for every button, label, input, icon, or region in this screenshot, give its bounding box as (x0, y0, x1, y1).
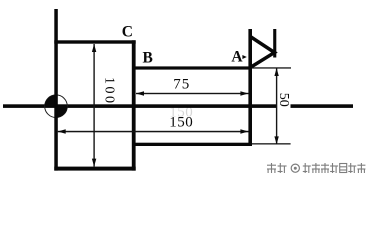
svg-text:C: C (122, 23, 133, 40)
dimension 150: left arrow (58, 129, 66, 133)
svg-text:B: B (143, 49, 153, 66)
dimension 150: right arrow (240, 129, 248, 133)
shaft bottom edge (133, 143, 252, 146)
flange bottom edge (54, 167, 135, 171)
dimension 100: bottom arrow (92, 159, 96, 167)
svg-text:A: A (231, 49, 243, 66)
flange left edge / end face line (54, 9, 58, 171)
cutting tool chevron tip (251, 37, 275, 67)
dimension 50: bottom extension line (252, 143, 291, 144)
datum circle (center-of-mass symbol) (45, 95, 68, 118)
svg-text:75: 75 (173, 77, 190, 93)
dimension 100: dimension line (93, 44, 94, 167)
dimension 50: white gap behind text (278, 92, 291, 109)
watermark: gray publisher text (CJK glyphs approximated with shapes) (267, 163, 365, 173)
flange top edge (54, 40, 135, 43)
centerline (horizontal axis) (3, 104, 353, 108)
shaft right end face (extends up as tool left edge) (248, 29, 252, 146)
label A pointer arrow (242, 55, 246, 59)
svg-text:50: 50 (276, 93, 291, 107)
svg-text:150: 150 (169, 115, 193, 131)
dimension 75: right arrow (240, 91, 248, 95)
flange right edge (132, 40, 136, 170)
dimension 100: top arrow (92, 44, 96, 52)
dimension 75: dimension line (136, 93, 249, 94)
dimension 50: dimension line (276, 68, 277, 144)
cutting tool right edge (273, 29, 276, 58)
dimension 50: top arrow (274, 68, 278, 76)
dimension 150: dimension line (58, 131, 249, 133)
shaft top edge (133, 66, 251, 69)
dimension 75: left arrow (136, 91, 144, 95)
svg-text:100: 100 (102, 77, 117, 106)
dimension 50: bottom arrow (274, 136, 278, 144)
dimension 50: top extension line (252, 67, 291, 68)
